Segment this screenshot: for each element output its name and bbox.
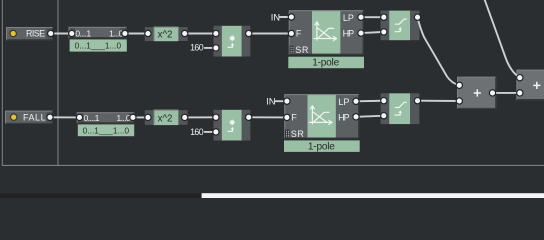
svg-text:x^2: x^2: [158, 30, 173, 41]
wire top edge to P2: [484, 0, 519, 78]
label bar of XF2: [78, 124, 134, 136]
panel column divider: [57, 0, 59, 166]
svg-text:160: 160: [190, 127, 204, 137]
module multiply M2: [214, 110, 251, 141]
svg-text:1-pole: 1-pole: [308, 141, 335, 152]
wire F2 HP to S2: [356, 116, 384, 117]
wire A1 to M1: [185, 33, 216, 35]
panel outer edge: [0, 0, 2, 166]
port RISE out: [47, 30, 55, 38]
panel bottom border: [2, 164, 544, 166]
wire F1 HP to S1: [361, 32, 384, 33]
wire 160 to M2: [205, 131, 216, 133]
ports XF1: [68, 30, 129, 38]
module add P2: [516, 70, 544, 101]
module x^2 A1: [145, 27, 188, 42]
module crossfade XF1: [69, 27, 127, 39]
ports M2: [212, 114, 252, 136]
ports A2: [144, 114, 188, 122]
ports P2: [516, 74, 524, 97]
svg-text:HP: HP: [338, 112, 350, 122]
svg-text:LP: LP: [338, 97, 349, 107]
bottom white strip: [202, 193, 544, 198]
svg-text:x^2: x^2: [158, 114, 173, 125]
svg-text:1...0: 1...0: [116, 113, 130, 123]
svg-text:F: F: [291, 113, 297, 123]
ports S2: [380, 97, 421, 120]
label bar of XF1: [70, 39, 127, 51]
svg-text:IN: IN: [266, 96, 275, 107]
macro 1-pole filter F1: [289, 10, 364, 55]
module slew S1: [381, 11, 420, 41]
wire IN to F2 IN: [275, 100, 287, 102]
panel left border: [1, 0, 3, 166]
led FALL: [10, 113, 18, 121]
module multiply M1: [214, 26, 251, 57]
ports S1: [380, 13, 421, 35]
svg-text:0....1: 0....1: [84, 113, 100, 123]
ports F1: [288, 13, 365, 37]
module RISE (button terminal): [6, 27, 53, 40]
wire F2 LP to S2: [356, 100, 384, 103]
wire F1 LP to S1: [361, 16, 384, 18]
svg-text:F: F: [296, 29, 302, 39]
led RISE: [9, 30, 17, 38]
wire M2 to F2 F: [249, 116, 287, 118]
module FALL (button terminal): [5, 111, 53, 124]
wire 160 to M1: [205, 47, 216, 49]
wire M1 to F1 F: [249, 33, 292, 35]
bottom dark strip: [0, 193, 202, 198]
macro 1-pole filter F2: [284, 94, 359, 139]
svg-text:0...1___1...0: 0...1___1...0: [75, 42, 122, 51]
wire RISE to XF1: [51, 33, 72, 35]
ports M1: [212, 30, 252, 52]
module add P1: [457, 77, 496, 109]
svg-text:0...1___1...0: 0...1___1...0: [83, 127, 130, 136]
svg-text:FALL: FALL: [23, 112, 46, 122]
svg-text:160: 160: [190, 43, 204, 53]
wire S1 to P1: [418, 17, 460, 85]
svg-text:LP: LP: [343, 13, 354, 23]
svg-text:RISE: RISE: [26, 29, 45, 39]
wire P1 to P2: [493, 92, 520, 94]
wire A2 to M2: [185, 116, 216, 118]
ports XF2: [76, 114, 137, 122]
wire XF1 to A1: [125, 33, 148, 35]
wire S2 to P1: [418, 100, 460, 102]
svg-text:1-pole: 1-pole: [312, 58, 339, 69]
wire XF2 to A2: [133, 116, 148, 118]
ports F2: [283, 97, 360, 121]
ports A1: [144, 30, 188, 38]
label bar 1-pole (row 2): [284, 140, 360, 152]
svg-text:0....1: 0....1: [75, 29, 91, 39]
module crossfade XF2: [77, 112, 134, 123]
svg-text:HP: HP: [343, 28, 355, 38]
svg-text:SR: SR: [295, 45, 308, 55]
svg-text:SR: SR: [291, 129, 304, 139]
ports P1: [456, 82, 497, 105]
label bar 1-pole (row 1): [288, 57, 364, 69]
module x^2 A2: [145, 110, 188, 126]
module slew S2: [381, 93, 420, 124]
wire IN to F1 IN: [280, 16, 292, 18]
wire FALL to XF2: [50, 116, 80, 118]
port FALL out: [46, 114, 54, 122]
